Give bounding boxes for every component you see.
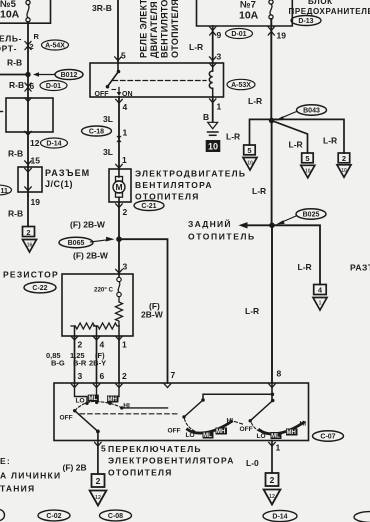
svg-text:B043: B043 (303, 108, 320, 115)
svg-text:5: 5 (305, 154, 309, 163)
svg-text:J/C(1): J/C(1) (45, 179, 73, 189)
svg-text:D-13: D-13 (298, 18, 313, 25)
branch from B025 to terminal 4 (272, 225, 320, 284)
node B043 junction (269, 118, 275, 124)
svg-text:1: 1 (276, 443, 281, 453)
wire (F)2B-W from B065 down to resistor pin 3 (118, 239, 120, 274)
svg-text:C-08: C-08 (108, 513, 123, 520)
svg-text:2: 2 (26, 228, 30, 237)
heater fan switch S1 box (54, 383, 309, 441)
svg-text:12: 12 (269, 494, 275, 500)
svg-text:ВЕНТИЛЯТОРА: ВЕНТИЛЯТОРА (160, 0, 170, 58)
section 2: bold contact arc (188, 422, 232, 434)
branch 3 from B043 to terminal 2 (272, 119, 344, 153)
relay link (dashed) (113, 80, 206, 82)
svg-text:C-22: C-22 (32, 285, 47, 292)
tick at left edge (0, 111, 3, 113)
svg-text:1: 1 (217, 102, 222, 112)
svg-text:R-B: R-B (8, 209, 23, 219)
svg-text:ЗАДНИЙ: ЗАДНИЙ (188, 218, 232, 229)
svg-text:ЭЛЕКТРОДВИГАТЕЛЬ: ЭЛЕКТРОДВИГАТЕЛЬ (135, 169, 246, 179)
triangle below pin 1 (264, 490, 281, 505)
svg-text:2B-W: 2B-W (141, 310, 164, 320)
section 3: lever (250, 401, 273, 421)
svg-text:5: 5 (247, 146, 251, 155)
svg-text:L-R: L-R (245, 306, 259, 316)
svg-text:2: 2 (78, 340, 83, 350)
svg-text:LO: LO (76, 397, 85, 404)
vertical resistor element (116, 297, 123, 326)
node B025 junction (269, 223, 275, 229)
fuse box D-13 (top right) (197, 0, 293, 26)
svg-text:B025: B025 (303, 212, 320, 219)
svg-text:РАЗЪЕМ: РАЗЪЕМ (45, 168, 90, 178)
svg-text:ML: ML (271, 433, 280, 439)
svg-text:ОТОПИТЕЛЬ: ОТОПИТЕЛЬ (188, 232, 256, 242)
main wire L-R from fuse No7 down to node B043 (270, 19, 272, 121)
svg-text:L-R: L-R (252, 186, 266, 196)
terminal box 2 (pin 1) (266, 473, 279, 486)
svg-text:6: 6 (30, 81, 35, 91)
svg-text:2: 2 (122, 371, 127, 381)
bottom row partial ovals (0, 510, 370, 522)
connector oval A-53X (227, 79, 255, 89)
svg-text:7: 7 (171, 370, 176, 380)
resistor R1 box (62, 274, 133, 336)
svg-text:ВЫКЛЮЧАТЕЛЬ-: ВЫКЛЮЧАТЕЛЬ- (0, 34, 22, 44)
svg-text:2: 2 (342, 154, 346, 163)
svg-text:12: 12 (30, 138, 40, 148)
svg-text:D-01: D-01 (231, 31, 246, 38)
svg-text:OFF: OFF (168, 428, 181, 435)
svg-text:2: 2 (30, 42, 34, 51)
svg-text:ДВИГАТЕЛЯ: ДВИГАТЕЛЯ (149, 1, 159, 58)
svg-text:5: 5 (121, 51, 126, 61)
svg-text:ON: ON (122, 91, 133, 98)
switch pin 1 wire L-0 down to terminal 2 (271, 441, 273, 474)
svg-text:D-01: D-01 (46, 83, 61, 90)
cut-off label at left edge (ВЫКЛЮЧАТЕЛЬ-ОРТ…) (0, 34, 22, 54)
connector oval C-18 (82, 126, 112, 136)
svg-text:L-0: L-0 (246, 458, 259, 468)
motor symbol (113, 169, 125, 202)
oval B043 with arrow (276, 105, 327, 121)
horizontal resistor elements (94, 323, 119, 329)
inline connector C-18 mark (116, 136, 121, 142)
relay label (vertical) РЕЛЕ ЭЛЕКТРОДВИГАТЕЛЯ ВЕНТИЛЯТОРА ОТОПИТЕЛЯ (139, 0, 181, 58)
svg-text:HI: HI (227, 418, 234, 425)
svg-text:HI: HI (300, 421, 307, 428)
svg-text:R: R (34, 32, 40, 41)
relay pin 1 wire B to ground (212, 97, 214, 122)
svg-text:L-R: L-R (298, 262, 312, 272)
svg-text:L-R: L-R (248, 96, 262, 106)
svg-text:8: 8 (277, 369, 282, 379)
oval B012 with arrow (33, 70, 83, 80)
wire to rear heater (arrow left) (246, 224, 272, 226)
svg-text:1: 1 (122, 340, 127, 350)
svg-text:B-G: B-G (51, 359, 65, 368)
svg-text:ТАНИЯ: ТАНИЯ (0, 484, 35, 494)
partial oval 11 at left edge (0, 185, 12, 195)
switch entry chevrons (71, 384, 77, 388)
oval C-07 (313, 431, 344, 441)
label R / pin 2 (30, 32, 40, 51)
wire R-B from fuse No5 down to node B012 (27, 22, 29, 75)
svg-text:B065: B065 (68, 240, 85, 247)
junction connector J/C(1) box (18, 167, 42, 192)
svg-text:D-14: D-14 (46, 141, 61, 148)
svg-text:C-18: C-18 (89, 129, 104, 136)
svg-text:3L: 3L (103, 147, 113, 157)
svg-text:3: 3 (78, 371, 83, 381)
svg-text:РАЗЪЕМ: РАЗЪЕМ (350, 263, 370, 273)
svg-text:2: 2 (270, 475, 275, 485)
svg-text:R-B: R-B (8, 149, 23, 159)
section 3: bold contact arc (260, 423, 304, 434)
svg-text:B012: B012 (61, 72, 78, 79)
relay contact (lever, OFF/ON) (95, 63, 133, 98)
section 3: dashed off arc (252, 423, 263, 433)
node B012 junction dot (25, 72, 30, 77)
svg-text:2: 2 (123, 207, 128, 217)
ignition switch box (unlabelled) (6, 98, 53, 132)
ground number 10 box (206, 140, 221, 152)
svg-text:1: 1 (122, 155, 127, 165)
triangle below pin 5 (90, 491, 107, 506)
resistor output drops pins 2/4/1 (74, 326, 76, 336)
switch pin 5 wire down to terminal 2 (97, 441, 99, 475)
svg-text:5: 5 (101, 444, 106, 454)
svg-text:10: 10 (341, 168, 347, 174)
svg-text:ВЕНТИЛЯТОРА: ВЕНТИЛЯТОРА (135, 180, 213, 190)
svg-text:ЭЛЕКТРОВЕНТИЛЯТОРА: ЭЛЕКТРОВЕНТИЛЯТОРА (108, 456, 235, 466)
svg-text:10A: 10A (0, 9, 20, 21)
svg-text:БЛОК: БЛОК (308, 0, 333, 6)
label ЭЛЕКТРОДВИГАТЕЛЬ ВЕНТИЛЯТОРА ОТОПИТЕЛЯ (135, 169, 246, 202)
svg-text:РЕЛЕ ЭЛЕКТРО-: РЕЛЕ ЭЛЕКТРО- (139, 0, 149, 58)
svg-text:19: 19 (277, 31, 287, 41)
svg-text:C-21: C-21 (141, 203, 156, 210)
svg-text:12: 12 (95, 495, 101, 501)
node B065 junction (116, 236, 122, 242)
fuse F7 symbol (269, 0, 273, 19)
svg-text:ОТОПИТЕЛЯ: ОТОПИТЕЛЯ (108, 468, 173, 478)
svg-text:OFF: OFF (240, 426, 253, 433)
svg-text:C-07: C-07 (320, 434, 335, 441)
main wire L-R from B043 down to node B025 (271, 121, 273, 226)
section 1: wiper lever to pivot (73, 409, 76, 412)
wire through ignition box (27, 75, 29, 168)
fuse No7 label (239, 0, 259, 22)
terminal box 2 (pin 5) (92, 474, 105, 487)
section 3: pin 8 drop to pivot (271, 383, 273, 401)
svg-text:M: M (115, 182, 122, 192)
main wire L-R from B025 down to switch pin 8 (271, 225, 273, 383)
wire 2B-W motor pin 2 down to node B065 (118, 202, 120, 239)
wire 3L from relay pin 4 to motor pin 1 (118, 97, 120, 169)
relay U1 box (90, 63, 224, 97)
ground symbol (208, 122, 218, 135)
wire labels 0.85 B-G / 1.25 B-R / (F) 2B-Y (46, 351, 106, 368)
section 1: HI feed line to pin 7 (122, 407, 168, 409)
svg-text:C-02: C-02 (46, 513, 61, 520)
svg-text:ОРТ-: ОРТ- (0, 44, 17, 54)
svg-text:L-R: L-R (189, 42, 203, 52)
motor M1 (heater blower) box (109, 169, 131, 202)
section 1: contact dots (85, 402, 88, 405)
svg-text:10: 10 (247, 161, 253, 167)
section 1: pivot to pin 5 (97, 431, 99, 440)
svg-text:R-B: R-B (7, 58, 22, 68)
wire left from node B012 (0, 74, 28, 76)
svg-text:OFF: OFF (60, 415, 73, 422)
svg-text:B: B (203, 112, 209, 122)
svg-text:9: 9 (217, 30, 222, 40)
svg-text:4: 4 (123, 102, 128, 112)
oval B065 with arrow (59, 237, 115, 248)
oval B025 with arrow (276, 209, 326, 225)
fuse box No5 (top-left, cut off) (0, 0, 51, 23)
svg-text:D-14: D-14 (272, 514, 287, 521)
connector oval A-54X (42, 40, 69, 50)
svg-text:РЕЗИСТОР: РЕЗИСТОР (3, 270, 59, 280)
svg-text:MH: MH (108, 397, 117, 403)
svg-text:1: 1 (319, 301, 322, 307)
svg-text:10: 10 (305, 168, 311, 174)
svg-text:MH: MH (287, 430, 296, 436)
svg-text:A-53X: A-53X (231, 82, 251, 89)
svg-text:OFF: OFF (95, 91, 110, 98)
oval D-13 (291, 16, 321, 26)
section 1: dashed position arc (75, 401, 121, 410)
wires from resistor to switch pins 3/6/2 (74, 336, 76, 383)
fuse F5 symbol (26, 0, 30, 21)
triangle (to ground page) (23, 240, 37, 253)
svg-text:3: 3 (123, 262, 128, 272)
svg-text:(F) 2B-W: (F) 2B-W (73, 251, 109, 261)
svg-text:LO: LO (257, 433, 266, 440)
svg-text:(F) 2B: (F) 2B (63, 463, 87, 473)
terminal box 2 (23, 227, 35, 237)
note text (cut at left edge) (0, 456, 61, 494)
oval C-21 (134, 201, 164, 211)
svg-text:10A: 10A (239, 10, 259, 22)
svg-text:ОТОПИТЕЛЯ: ОТОПИТЕЛЯ (170, 0, 180, 58)
svg-text:10: 10 (208, 142, 218, 152)
label ПЕРЕКЛЮЧАТЕЛЬ ЭЛЕКТРОВЕНТИЛЯТОРА ОТОПИТЕЛЯ (108, 444, 235, 478)
branch from B065 right then down to switch pin 7 (119, 239, 168, 383)
svg-text:L-R: L-R (226, 132, 240, 142)
svg-text:6: 6 (100, 371, 105, 381)
svg-text:2: 2 (96, 476, 101, 486)
branch 1 from B043 to terminal 5 (250, 119, 272, 145)
svg-text:19: 19 (31, 197, 41, 207)
wire 3R-B down to relay pin 5 (117, 0, 119, 63)
thermal fuse 220 C (117, 274, 121, 297)
svg-text:MH: MH (216, 429, 225, 435)
switch pin numbers 3/6/2 (78, 371, 128, 381)
svg-text:3: 3 (217, 52, 222, 62)
svg-text:R-B: R-B (9, 80, 24, 90)
svg-text:16: 16 (27, 243, 33, 249)
svg-text:L-R: L-R (289, 140, 303, 150)
svg-text:LO: LO (186, 432, 195, 439)
svg-text:L-R: L-R (323, 136, 337, 146)
svg-text:1: 1 (123, 128, 128, 138)
section 2: dashed off arc (185, 419, 196, 432)
svg-text:ML: ML (203, 433, 212, 439)
svg-text:11: 11 (1, 188, 9, 195)
svg-text:ПРЕДОХРАНИТЕЛЕЙ: ПРЕДОХРАНИТЕЛЕЙ (289, 7, 370, 16)
label БЛОК ПРЕДОХРАНИТЕЛЕЙ (289, 0, 370, 16)
section 2: pivot riser and inner wire (203, 394, 272, 400)
label ЗАДНИЙ ОТОПИТЕЛЬ (188, 218, 256, 242)
svg-text:4: 4 (100, 340, 105, 350)
section 2: lever (184, 400, 203, 417)
svg-text:3R-B: 3R-B (92, 3, 112, 13)
svg-text:(F) 2B-W: (F) 2B-W (70, 220, 106, 230)
relay coil (209, 63, 212, 97)
svg-text:2B-Y: 2B-Y (89, 359, 106, 368)
mechanical link dashes (80, 413, 180, 415)
section 1: contact drops (75, 383, 88, 402)
connector A-54X pin 2 marks (25, 42, 31, 50)
svg-text:А ЛИЧИНКИ: А ЛИЧИНКИ (0, 471, 61, 481)
svg-text:15: 15 (31, 156, 41, 166)
svg-text:A-54X: A-54X (45, 43, 65, 50)
svg-text:220° C: 220° C (94, 287, 114, 294)
svg-text:Е:: Е: (0, 456, 11, 466)
svg-text:ПЕРЕКЛЮЧАТЕЛЬ: ПЕРЕКЛЮЧАТЕЛЬ (108, 444, 202, 454)
svg-text:B-R: B-R (73, 359, 87, 368)
branch 2 from B043 to terminal 5 (272, 121, 308, 154)
svg-text:3L: 3L (103, 114, 113, 124)
wire relay pin3 up to fusebox pin 9 (212, 26, 214, 63)
fuse No5 label (0, 0, 20, 21)
